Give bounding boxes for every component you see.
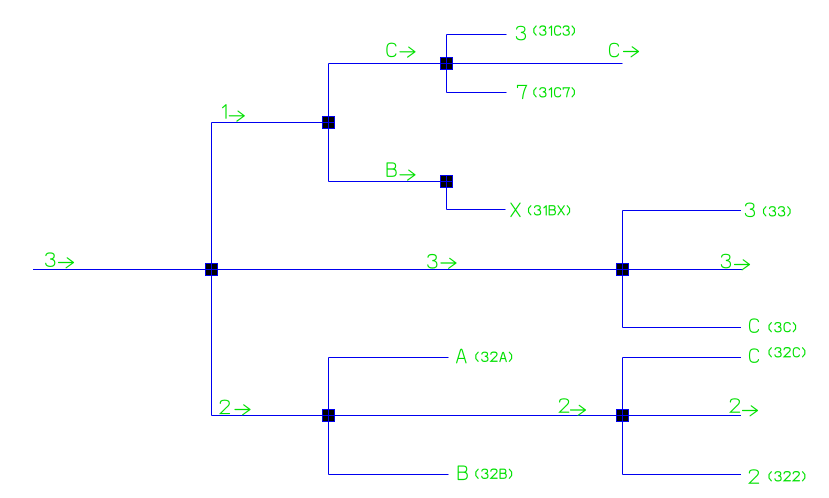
wire branch 2 horizontal (212, 415, 742, 417)
label X (31BX) (511, 203, 570, 216)
label 3 -> (right output) (721, 254, 749, 269)
wire leaf 32A (329, 357, 449, 359)
wire leaf 32C (623, 357, 742, 359)
wire node1 vertical (328, 64, 330, 182)
node 1 (323, 117, 335, 129)
node C (441, 58, 453, 70)
wire node2l vertical (328, 358, 330, 475)
wire branch 1 horizontal (212, 122, 329, 124)
wire node2r vertical (622, 358, 624, 475)
wire root vertical down to branch 2 (211, 270, 213, 416)
wire branch B horizontal (329, 181, 447, 183)
wire node3r vertical (622, 211, 624, 328)
label 3 (31C3) (516, 26, 574, 40)
label C -> (upper branch) (387, 43, 415, 57)
wire leaf 33 (623, 210, 742, 212)
wire leaf 32B (329, 474, 449, 476)
node 2 left (323, 410, 335, 422)
wire leaf 31C3 (447, 34, 507, 36)
node root (206, 264, 218, 276)
wires: blue tree connectors (33, 35, 742, 475)
wire root vertical up to branch 1 (211, 123, 213, 270)
node squares (206, 58, 629, 422)
wire branch C horizontal (329, 63, 623, 65)
cross lines over squares (205, 57, 629, 422)
label 2 -> (right output of node 2) (730, 399, 757, 416)
label B -> (387, 163, 415, 180)
label C -> (output of node C) (610, 43, 639, 57)
label 7 (31C7) (518, 85, 575, 98)
label 1 -> (223, 105, 245, 121)
label 3 -> (left input) (46, 253, 74, 268)
wire leaf 31BX (447, 209, 506, 211)
label C (32C) (750, 348, 805, 363)
label 2 -> (mid of branch 2) (560, 399, 586, 415)
label 2 -> (lower branch) (220, 400, 250, 415)
label 3 -> (mid main line) (428, 255, 456, 269)
label B (32B) (458, 466, 511, 479)
label A (32A) (457, 349, 512, 363)
wire nodeB vertical down (446, 182, 448, 210)
node B (441, 176, 453, 188)
node 3 right (617, 264, 629, 276)
wire main horizontal 3 line (33, 269, 742, 271)
label 2 (322) (749, 470, 804, 483)
node 2 right (617, 410, 629, 422)
label C (3C) (750, 319, 796, 332)
wire nodeC vertical (446, 35, 448, 93)
wire leaf 31C7 (447, 92, 507, 94)
wire leaf 3C (623, 327, 742, 329)
wire leaf 322 (623, 474, 742, 476)
label 3 (33) (745, 203, 790, 217)
